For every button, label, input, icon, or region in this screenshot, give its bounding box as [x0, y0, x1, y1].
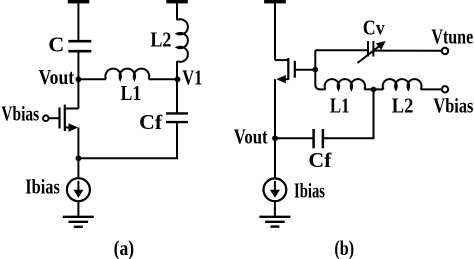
wire: [78, 78, 106, 80]
capacitor C: [68, 41, 91, 51]
wire: [176, 61, 178, 79]
wire: [364, 88, 383, 90]
wire: [274, 201, 276, 217]
wire: [275, 137, 314, 139]
wire: [149, 78, 177, 80]
terminal Vtune: [442, 48, 448, 54]
wire: [373, 50, 441, 52]
inductor L2 (a): [177, 19, 188, 62]
wire: [77, 201, 79, 217]
wire: [319, 88, 325, 90]
transistor M1 (a): [60, 105, 79, 132]
wire: [77, 3, 79, 41]
power rail VDD (b): [264, 0, 286, 3]
terminal Vbias (b): [442, 86, 448, 92]
current source Ibias (a): [67, 178, 90, 201]
svg-text:C: C: [48, 33, 64, 57]
svg-text:Cf: Cf: [308, 148, 332, 172]
wire source (b): [274, 79, 276, 138]
svg-text:Vbias: Vbias: [1, 101, 39, 125]
ground (a): [63, 217, 94, 227]
wire: [315, 50, 320, 89]
wire Cv branch: [315, 49, 368, 51]
wire: [77, 51, 79, 79]
wire gate (a): [49, 117, 60, 119]
svg-text:Ibias: Ibias: [25, 174, 60, 198]
svg-text:L2: L2: [150, 28, 171, 52]
power rail VDD (a) left: [68, 0, 90, 3]
svg-text:(a): (a): [114, 236, 135, 259]
svg-text:Vtune: Vtune: [431, 25, 473, 49]
wire drain (a): [77, 79, 79, 108]
wire: [78, 122, 177, 158]
ground (b): [259, 217, 290, 227]
node L1-L2 (b): [371, 87, 377, 93]
svg-text:L1: L1: [121, 81, 142, 105]
svg-text:Cf: Cf: [139, 110, 163, 134]
inductor L2 (b): [383, 79, 422, 89]
varactor Cv: [358, 41, 386, 63]
node source junction (a): [76, 155, 82, 161]
inductor L1 (b): [325, 79, 365, 89]
svg-text:L2: L2: [392, 94, 414, 118]
node gate (b): [313, 67, 319, 73]
node Vout (b): [272, 135, 278, 141]
capacitor Cf (a): [166, 113, 188, 122]
wire: [176, 3, 178, 20]
svg-text:Vout: Vout: [39, 65, 75, 89]
svg-text:(b): (b): [334, 236, 354, 259]
current source Ibias (b): [264, 178, 287, 201]
wire: [274, 3, 276, 60]
wire: [274, 138, 276, 178]
inductor L1 (a): [105, 69, 149, 80]
svg-text:Vout: Vout: [234, 125, 268, 149]
capacitor Cf (b): [314, 129, 323, 148]
svg-text:Vbias: Vbias: [433, 94, 473, 118]
svg-text:V1: V1: [182, 66, 202, 90]
wire: [176, 79, 178, 113]
transistor M2 (b): [275, 58, 295, 84]
svg-text:L1: L1: [330, 93, 350, 117]
node V1: [175, 76, 181, 82]
wire gate (b): [296, 69, 315, 71]
svg-text:Cv: Cv: [363, 15, 385, 39]
wire: [323, 89, 374, 138]
power rail VDD (a) right: [166, 0, 188, 3]
wire source (a): [77, 128, 79, 179]
node Vout (a): [76, 76, 82, 82]
svg-text:Ibias: Ibias: [294, 179, 325, 203]
wire: [421, 88, 442, 90]
gate terminal circle (a): [43, 115, 49, 121]
